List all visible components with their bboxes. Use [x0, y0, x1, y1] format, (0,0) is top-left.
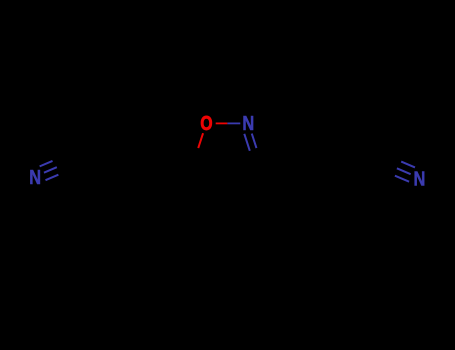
wire O1-N2 bond blue half [227, 122, 240, 124]
triple bond C≡N3 (right, blue halves) [395, 162, 415, 182]
op ring oxygen O1 (isoxazole O label) [200, 112, 212, 134]
wire O1-C5 bond red half [198, 133, 203, 148]
nitrile N1 (left cyano nitrogen label) [29, 166, 41, 189]
wire N2=C3 double bond blue halves [244, 134, 256, 151]
triple bond C≡N1 (left, blue halves) [40, 161, 59, 180]
svg-text:N: N [413, 167, 425, 190]
nitrile N3 (right cyano nitrogen label) [413, 167, 425, 190]
svg-text:O: O [200, 112, 212, 134]
ring nitrogen N2 (isoxazole N label) [242, 112, 254, 135]
wire O1-N2 bond red half [216, 122, 228, 124]
svg-text:N: N [29, 166, 41, 189]
svg-text:N: N [242, 112, 254, 135]
